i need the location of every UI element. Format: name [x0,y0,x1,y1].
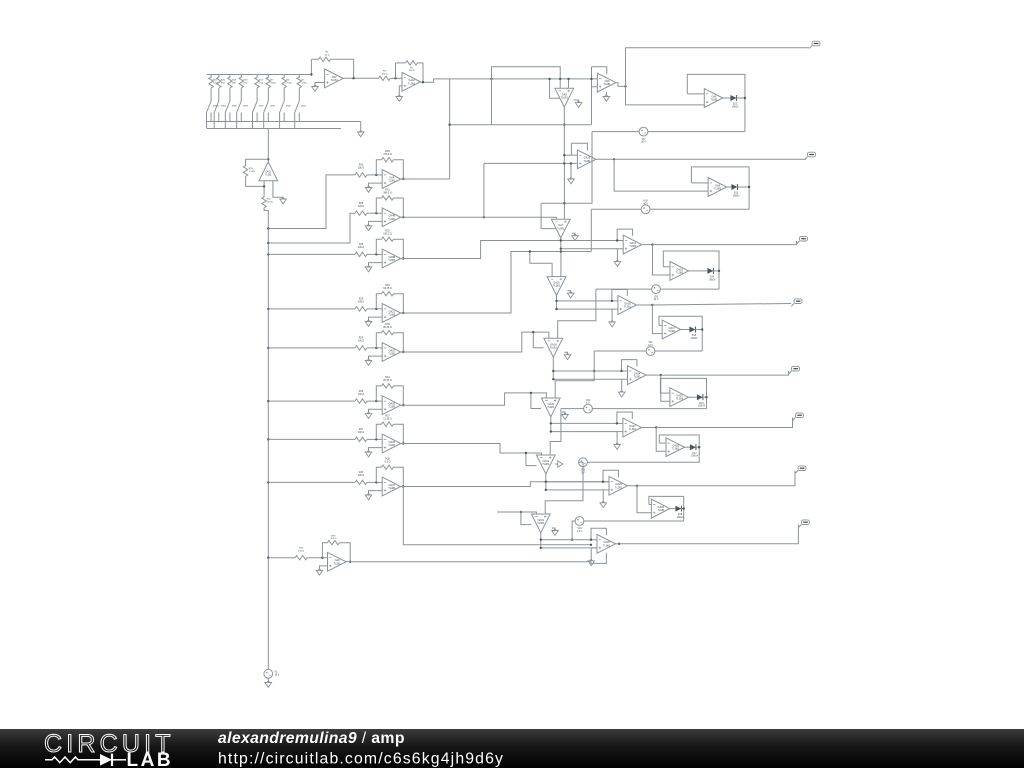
wire row F bottom to DT7 plus pin [545,462,583,514]
resistor R27 [355,428,367,441]
junction [571,539,573,541]
svg-text:OA06TL081: OA06TL081 [388,441,396,447]
svg-text:OA24TL081: OA24TL081 [634,373,642,379]
wire DT1 side feed [550,79,561,98]
junction [402,216,404,218]
op-amp OA12 [402,72,421,91]
junction [701,328,703,330]
wire OA17 to diode [681,329,690,331]
wire stage6 out to DT5 minus pin [401,393,547,405]
wire row B to OA9B plus [614,159,708,191]
wire DT7 rect left [521,512,532,525]
footer bar [0,729,1024,768]
wire into op-amp OA05 [367,400,382,402]
resistor R20 [217,75,226,102]
op-amp OA4B [382,208,401,227]
wire source 6 left [579,461,583,463]
junction bus tap OA9B [267,253,269,255]
svg-text:OA28TL081: OA28TL081 [672,445,680,451]
svg-text:OA26TL081: OA26TL081 [547,403,555,409]
wire OS-7 feedback rect [649,496,684,521]
junction bus tap OA4B [267,242,269,244]
voltage source V17 [639,127,648,143]
svg-text:OA25TL081: OA25TL081 [676,395,684,401]
wire switch throw rail [207,128,341,130]
ground OA16 [609,309,618,327]
voltage source V20 [652,285,661,301]
wire OA28 minus stub [659,442,666,444]
wire row A down to DT2 rect [564,132,592,204]
wire OS-4 feedback rect [659,316,702,351]
switch SW9 [237,101,249,129]
wire stage7 out to DT6 minus pin [401,444,542,456]
op-amp OA05 [382,396,401,415]
wire source 5 left [561,408,584,410]
wire OS-5 bottom [592,408,706,410]
resistor R29 [376,150,403,179]
wire OA9C to diode [727,186,732,188]
junction [560,239,562,241]
resistor R39 [322,535,350,562]
wire OA17 minus stub [659,324,662,326]
wire DT1 plus pin [568,79,570,88]
ground OA24 [618,379,627,397]
ground OA27 [614,432,623,450]
svg-text:SW4: SW4 [301,106,307,108]
switch SW2 [280,101,292,129]
junction [402,257,404,259]
wire bus to stage OA05 [268,400,355,402]
svg-text:OA30TL081: OA30TL081 [657,506,665,512]
svg-text:V1840 V: V1840 V [643,201,648,206]
wire source B left [591,208,641,210]
ground OA7 [572,233,579,240]
wire OS-B minus stub [691,182,708,184]
op-amp OA10 [670,262,689,281]
wire OA18 output down [552,357,554,379]
resistor R34 [376,376,403,405]
op-amp OA26 [541,398,560,417]
junction [705,396,707,398]
wire OA28 to diode [685,446,690,448]
wire OS-B feedback rect [691,167,749,209]
svg-text:OA4BTL081: OA4BTL081 [388,215,396,221]
wire OA16 plus feed [557,308,613,310]
op-amp OA06 [382,434,401,453]
junction [375,400,377,402]
wire DT6 rect left [526,453,537,466]
diode D16 [697,394,706,407]
wire OA31 out to OA20 [541,539,597,541]
wire OA19 output down [545,474,547,490]
junction bus tap OA4 [267,227,269,229]
wire into op-amp OA06 [367,438,382,440]
wire riser x449 [449,79,451,179]
wire OA24 plus feed [553,378,621,380]
wire OS-4 bottom [655,350,702,352]
wire OA26 out to OA27 [551,422,623,424]
junction [550,430,552,432]
resistor R23 [355,471,367,484]
wire diode to node B [737,186,749,188]
wire OA6 rect top [592,67,607,74]
op-amp OA15 [547,277,566,296]
resistor R7 [266,75,276,102]
wire bank to OA11 [267,129,269,162]
svg-text:SW9: SW9 [243,106,249,108]
wire stage8 alt path [403,487,591,545]
svg-text:OA10TL081: OA10TL081 [676,268,684,274]
wire into op-amp OA07 [367,481,382,483]
diode D17 [690,444,699,457]
flag out4 [791,299,802,306]
junction [563,124,565,126]
resistor R6 [282,75,292,102]
junction [567,78,569,80]
wire into op-amp OA9B [367,253,382,255]
wire diode D15 to node [695,329,702,331]
resistor R37 [376,415,403,444]
svg-text:OA14TL081: OA14TL081 [629,242,637,248]
wire row to flag 3 [653,241,797,245]
junction [616,422,618,424]
wire into op-amp OA21 [367,308,382,310]
op-amp OA25 [670,388,689,407]
wire node A down [491,79,493,125]
wire diode D18 to node [681,508,683,510]
voltage source V21 [646,342,655,355]
op-amp OA07 [382,477,401,496]
op-amp OA21 [382,304,401,323]
svg-text:LAB: LAB [127,750,174,768]
junction [263,185,265,187]
diode D15 [689,327,698,340]
wire DT5 rect left [531,393,541,409]
wire row G feed to DT7 minus pin [497,512,536,514]
junction [545,481,547,483]
svg-text:OA9BTL081: OA9BTL081 [388,256,396,262]
junction [321,557,323,559]
junction [375,481,377,483]
wire row A to OA8 plus [626,86,705,105]
diode D18 [675,506,684,519]
wire OA27 output [641,427,656,429]
flag out8 [799,520,810,527]
wire OA7 output down [560,238,562,249]
svg-text:R386.2 Ω: R386.2 Ω [385,458,391,464]
junction bus tap OA22 [267,347,269,349]
wire OA18 out to OA24 [553,370,627,372]
junction [570,162,572,164]
wire OA13 output [596,158,614,160]
ground V1 [265,678,272,687]
ground OA6 [603,92,610,101]
junction [375,253,377,255]
svg-text:OA19TL081: OA19TL081 [542,460,550,466]
junction [555,308,557,310]
ground OA4 [365,183,382,192]
ground OA26 [562,412,569,419]
op-amp OA22 [382,343,401,362]
wire OA6 output jog [616,83,626,87]
resistor R30 [355,164,367,177]
wire row 3 to OA10 plus [653,245,671,275]
svg-text:OA15TL081: OA15TL081 [553,282,561,288]
svg-text:SW6: SW6 [270,106,276,108]
op-amp OA16 [612,290,637,315]
diode D12 [730,95,739,108]
resistor R3 [378,71,390,81]
ground OA18 [564,352,571,359]
junction [555,300,557,302]
junction [590,544,592,546]
wire OA16 output [636,304,652,306]
ground OA21 [365,317,382,326]
ground OA4B [365,221,382,230]
wire to OA20 plus [591,547,597,549]
wire feedback down OA2 [353,59,355,78]
wire OA14 plus feed [561,248,618,250]
junction [402,178,404,180]
wire bus to stage OA21 [268,308,355,310]
wire row 4 to OA17 plus [652,305,662,334]
wire feedback left OA11 [246,159,269,165]
op-amp OA29 [603,470,628,495]
svg-text:alexandremulina9 / amp: alexandremulina9 / amp [218,730,405,747]
wire source 4 left [594,350,646,352]
junction [530,392,532,394]
wire diode D14 to node [713,270,719,272]
junction [532,331,534,333]
wire source 3 left [596,288,652,290]
flag out3 [797,236,808,243]
wire OA30 minus stub [649,504,652,506]
ground OA9B [365,263,382,272]
wire OA29 output [628,485,638,487]
wire chain OA5 to OA7 [563,163,565,219]
resistor R35 [376,323,403,352]
wire into op-amp OA4B [367,212,382,214]
op-amp OA11 [259,162,278,181]
wire feedback down OA12 [422,63,424,82]
svg-text:OA18TL081: OA18TL081 [550,343,558,349]
wire OA5 output down [563,107,565,163]
switch SW6 [264,101,276,129]
svg-text:SW8: SW8 [232,106,238,108]
resistor R16 [243,166,264,187]
ground OA13 [568,163,575,183]
wire OS-A feedback rect [687,74,745,131]
op-amp OA13 [571,143,596,168]
junction [310,73,312,75]
wire OA10 to diode [689,270,708,272]
svg-text:SW7: SW7 [259,106,265,108]
wire OA15 output down [556,295,558,309]
svg-text:OA29TL081: OA29TL081 [615,483,623,489]
op-amp OA6 [597,73,616,92]
wire stage8 out to OA19 minus [401,482,609,487]
junction [550,422,552,424]
wire DT3 minus pin path [530,252,552,277]
wire OA6 rect left [591,67,593,125]
junction [660,374,662,376]
junction [613,158,615,160]
junction [545,489,547,491]
resistor R5b [396,61,424,72]
wire OA31 output down [540,533,542,548]
flag out5 [789,366,800,373]
voltage source V23 [579,458,588,474]
resistor R24 [355,337,367,350]
junction [616,239,618,241]
wire OA8 minus stub [687,93,704,95]
wire row A to flag out1 [626,48,810,87]
wire into op-amp OA22 [367,347,382,349]
resistor R17 [255,75,264,102]
wire row D bottom to DT5 plus pin [555,351,594,398]
wire row to flag 4 [652,304,791,306]
op-amp OA2 [325,69,344,88]
junction [529,250,531,252]
wire row 5 to OA25 plus [661,375,670,401]
wire OA10 minus stub [663,266,670,268]
ground OA06 [365,448,382,457]
op-amp OA4 [382,170,401,189]
resistor R25 [355,298,367,311]
wire stage4 out to DT3 feed [401,252,592,314]
svg-text:OA22TL081: OA22TL081 [388,349,396,355]
junction [483,216,485,218]
wire OS-B bottom [650,208,749,210]
ground OA5 [574,100,582,107]
junction [651,243,653,245]
wire DT4 rect left [533,332,543,348]
junction bus tap OA07 [267,481,269,483]
junction [402,485,404,487]
wire OA9 output [346,561,591,563]
wire diode to node [736,97,745,99]
junction [748,186,750,188]
wire source A left [592,131,639,133]
junction [525,452,527,454]
wire diode D16 to node [703,396,707,398]
op-amp OA17 [662,320,681,339]
junction [394,77,396,79]
wire row to flag 5 [661,371,789,375]
junction [593,370,595,372]
wire DT2 rect left [541,203,555,228]
junction [560,248,562,250]
op-amp OA9C [708,178,727,197]
op-amp OA8 [704,89,723,108]
flag out1 [809,41,820,48]
wire OA29 plus feed [546,489,603,491]
junction [552,378,554,380]
op-amp OA14 [617,229,642,254]
wire bus to stage OA22 [268,347,355,349]
wire OA8 to diode [723,97,731,99]
junction [448,124,450,126]
voltage source V19 [575,517,584,533]
wire bus to stage OA9B [268,253,355,255]
op-amp OA9B [382,249,401,268]
wire OA2 output [343,77,378,79]
ground OA31 [552,528,559,535]
junction [560,250,562,252]
junction [540,539,542,541]
junction [563,154,565,156]
ground OA12 [396,86,403,101]
junction [683,507,685,509]
wire OA20 plus feed [541,547,591,549]
svg-text:OA12TL081: OA12TL081 [408,79,416,85]
svg-text:OA21TL081: OA21TL081 [388,310,396,316]
op-amp OA18 [544,338,563,357]
ground OA14 [614,249,623,267]
resistor R12 [262,197,273,214]
wire OS-3 bottom [660,288,719,290]
junction [636,485,638,487]
junction [402,312,404,314]
wire bus to stage OA06 [268,438,355,440]
ground OA29 [600,490,609,508]
op-amp OA9 [328,552,347,571]
wire OA14 output [642,244,653,246]
junction [548,78,550,80]
resistor R18 [239,75,248,102]
wire row to flag 8 [619,525,798,544]
resistor R36 [355,390,367,404]
junction [651,304,653,306]
wire OA30 to diode [670,508,676,510]
flag out2 [805,152,816,159]
junction [402,404,404,406]
wire OS-3 feedback rect [663,251,719,289]
junction [563,162,565,164]
wire source V19 to row H [572,521,575,540]
wire switch pole rail [207,121,361,123]
junction [563,202,565,204]
junction [375,308,377,310]
switch SW10 [207,101,220,129]
wire stage2 out to DT2 minus pin [401,217,557,219]
wire OA25 to diode [688,396,697,398]
junction [618,543,620,545]
wire loop to DT1 minus [492,67,561,89]
junction [552,370,554,372]
ground OA20 [588,548,597,566]
wire riser x484 [483,163,485,217]
junction [655,426,657,428]
wire OA19 out to OA29 [546,481,609,483]
junction bus tap OA9 [267,557,269,559]
op-amp OA30 [651,499,670,518]
wire row C bottom to DT4 plus pin [558,289,596,338]
junction [375,438,377,440]
wire DT1 out to OA13 minus [564,154,577,156]
svg-text:OA16TL081: OA16TL081 [624,302,632,308]
wire row B down to DT3 feed [590,209,592,251]
resistor R5 [297,75,307,102]
junction [611,300,613,302]
svg-text:OA05TL081: OA05TL081 [388,403,396,409]
wire OA6 plus feed [592,86,598,88]
resistor R40 [295,548,307,560]
ground OA11 [273,181,287,204]
junction [602,481,604,483]
wire OS-6 bottom [587,461,699,463]
resistor R22 [209,75,219,102]
